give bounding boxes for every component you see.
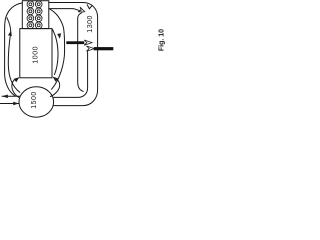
- inner top duct line with corner down to baffle: [49, 9, 82, 12]
- outer casing left wall: [5, 3, 23, 96]
- flow arrowhead on inner left arc: [8, 30, 13, 36]
- left S flow arrow into box corner: [12, 78, 19, 97]
- right C flow arrow into box corner: [51, 79, 60, 96]
- thick flow bar 1: [66, 41, 84, 44]
- box 1000: [20, 29, 52, 78]
- thick flow bar 2: [94, 47, 114, 50]
- blower circle 1500: [19, 87, 54, 117]
- svg-text:Fig. 10: Fig. 10: [159, 29, 166, 51]
- coil winding symbols (2 cols x 4 rows circled dots): [27, 1, 42, 29]
- open dart arrowhead on top duct: [78, 7, 86, 14]
- right inner flow arc: [53, 30, 59, 75]
- bottom-left upper duct line: [2, 95, 20, 97]
- inner left flow arc: [7, 18, 20, 93]
- leader hook of label 1300: [87, 5, 92, 9]
- svg-text:1500: 1500: [31, 91, 38, 109]
- right long flow arc: [50, 9, 65, 89]
- svg-text:1000: 1000: [33, 46, 40, 64]
- bottom-left lower duct line: [0, 103, 19, 105]
- open dart arrowhead 2: [87, 46, 95, 51]
- open dart arrowhead 1: [84, 40, 92, 45]
- coil box: [22, 1, 49, 29]
- right-pointing arrowhead: [13, 102, 19, 106]
- flow arrowhead on right flow arc: [57, 33, 62, 39]
- inner casing wall right (1300 duct wall): [54, 52, 88, 98]
- outer casing right wall: [49, 3, 98, 106]
- svg-text:1300: 1300: [87, 15, 94, 33]
- left-pointing arrowhead: [2, 95, 8, 99]
